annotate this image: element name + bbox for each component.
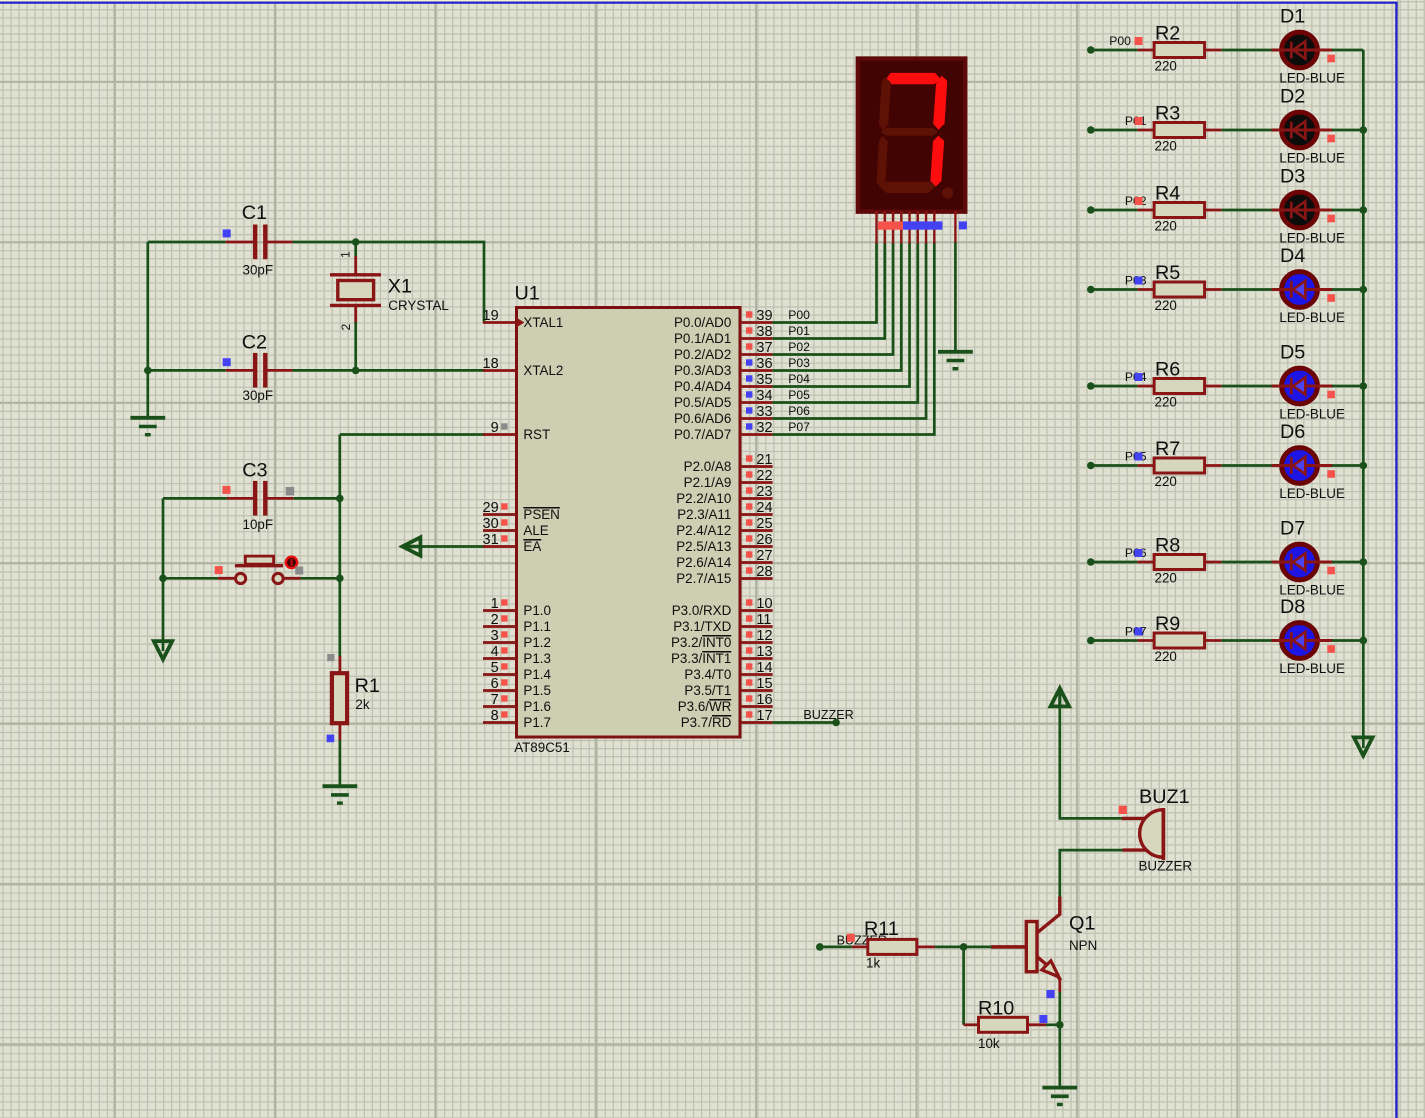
wire button right to RST vertical [301,577,340,580]
svg-text:P1.7: P1.7 [523,715,551,730]
7-segment display pins [877,211,956,244]
svg-text:P2.4/A12: P2.4/A12 [676,523,731,538]
wire R6 to D5 [1221,385,1272,388]
wire net P07 (LED row left) [1087,637,1138,645]
svg-text:23: 23 [756,484,772,500]
svg-text:LED-BLUE: LED-BLUE [1279,310,1345,325]
svg-text:P0.3/AD3: P0.3/AD3 [674,363,731,378]
value LED-BLUE (D2) [1279,151,1345,166]
transistor Q1 [991,897,1060,993]
svg-text:CRYSTAL: CRYSTAL [388,298,449,313]
pin 24 P2.3/A11 (U1 right) [677,500,772,522]
pin 29 PSEN (U1 left) [483,500,560,522]
resistor R7 [1138,458,1222,473]
label D8 [1280,596,1305,618]
svg-text:P3.6/WR: P3.6/WR [678,699,732,714]
wire D6 to bus [1332,464,1363,467]
pin 39 P0.0/AD0 (U1 right) [674,308,773,330]
label U1 [515,283,540,305]
svg-text:4: 4 [491,644,499,660]
svg-text:P3.4/T0: P3.4/T0 [684,667,731,682]
svg-text:24: 24 [756,500,772,516]
net label P00 (row) [1109,34,1131,48]
pin 30 ALE (U1 left) [483,516,549,538]
pin 34 P0.5/AD5 (U1 right) [674,388,773,410]
value CRYSTAL [388,298,449,313]
wire net P00 (LED row left) [1087,46,1138,54]
LED D2 [1272,112,1333,148]
svg-text:P1.4: P1.4 [523,667,551,682]
svg-text:ALE: ALE [523,523,548,538]
pin number 1 (X1) [339,251,353,258]
pin 31 EA (U1 left) [483,532,542,554]
marker square buzzer top (red) [1119,806,1127,814]
pin 18 XTAL2 (U1 left) [483,356,564,378]
svg-text:P2.6/A14: P2.6/A14 [676,555,732,570]
wire D3 to bus [1332,209,1363,212]
svg-text:14: 14 [756,660,772,676]
marker square P00 (red) [1135,37,1143,45]
label C3 [242,459,267,481]
svg-text:30pF: 30pF [243,388,274,403]
label D6 [1280,421,1305,443]
marker square P03 (blue) [1135,277,1143,285]
svg-text:P0.1/AD1: P0.1/AD1 [674,331,731,346]
pin 38 P0.1/AD1 (U1 right) [674,324,773,346]
pin 5 P1.4 (U1 left) [483,660,551,682]
net label P03 (row) [1125,273,1147,287]
net label P00 [788,308,810,322]
svg-text:30: 30 [483,516,499,532]
wire left vertical (C1/C2 left to ground) [146,242,149,418]
svg-text:P04: P04 [788,372,810,386]
value LED-BLUE (D7) [1279,583,1345,598]
svg-text:220: 220 [1155,219,1177,234]
net label P01 (row) [1125,114,1147,128]
svg-text:P1.1: P1.1 [523,619,551,634]
wire R9 to D8 [1221,639,1272,642]
wire button left down [162,578,165,651]
wire net P00 [773,243,877,323]
marker square D7 (red) [1327,567,1335,575]
label X1 [388,276,412,298]
svg-text:12: 12 [756,628,772,644]
svg-text:D2: D2 [1280,86,1305,108]
resistor R9 [1138,633,1222,648]
svg-text:P3.2/INT0: P3.2/INT0 [671,635,731,650]
svg-text:D6: D6 [1280,421,1305,443]
label R4 [1155,183,1180,205]
wire R4 to D3 [1221,209,1272,212]
svg-text:X1: X1 [388,276,412,298]
svg-text:220: 220 [1155,298,1177,313]
junction node (BUZZER stub end) [832,719,840,727]
svg-text:R4: R4 [1155,183,1180,205]
svg-text:P0.6/AD6: P0.6/AD6 [674,411,731,426]
junction node (bus row D6) [1360,462,1368,470]
pin 3 P1.2 (U1 left) [483,628,551,650]
svg-text:R3: R3 [1155,103,1180,125]
wire net P07 [773,243,935,435]
label C1 [242,202,267,224]
resistor R3 [1138,123,1222,138]
junction node (C2-X1 pin2) [352,367,360,375]
svg-text:LED-BLUE: LED-BLUE [1279,486,1345,501]
svg-text:D1: D1 [1280,6,1305,28]
pin 21 P2.0/A8 (U1 right) [684,452,773,474]
resistor R10 [964,1017,1046,1032]
terminal arrow (down, button branch) [154,641,172,659]
svg-text:30pF: 30pF [243,263,274,278]
svg-text:AT89C51: AT89C51 [514,740,570,755]
junction node (bus row D5) [1360,382,1368,390]
wire net P05 (LED row left) [1087,462,1138,470]
marker square D3 (red) [1327,215,1335,223]
marker square P04 (blue) [1135,373,1143,381]
wire net P03 [773,243,902,371]
svg-text:R7: R7 [1155,438,1180,460]
svg-text:BUZ1: BUZ1 [1139,786,1190,808]
pin 19 XTAL1 (U1 left) [483,308,564,330]
wire X1 pin1 [354,242,357,257]
svg-text:P3.0/RXD: P3.0/RXD [672,603,732,618]
pin 33 P0.6/AD6 (U1 right) [674,404,773,426]
svg-text:LED-BLUE: LED-BLUE [1279,231,1345,246]
marker square R11 left (red) [847,934,855,942]
svg-text:26: 26 [756,532,772,548]
svg-text:10: 10 [756,596,772,612]
wire C3 row [163,497,340,500]
value 30pF (C1) [243,263,274,278]
wire R2 to D1 [1221,49,1272,52]
crystal X1 [330,275,381,306]
wire net P06 (LED row left) [1087,558,1138,566]
net label BUZZER (R11) [837,934,887,948]
svg-text:D8: D8 [1280,596,1305,618]
capacitor C1 [226,225,293,260]
label R8 [1155,535,1180,557]
wire net BUZZER (pin17 stub) [773,721,837,724]
wire net P04 (LED row left) [1087,382,1138,390]
marker square C1 (blue) [223,229,231,237]
svg-text:220: 220 [1155,571,1177,586]
svg-text:5: 5 [491,660,499,676]
value 2k (R1) [355,697,369,712]
wire R5 to D4 [1221,288,1272,291]
pin 22 P2.1/A9 (U1 right) [684,468,773,490]
ground (Q1) [1042,1088,1077,1105]
LED D7 [1272,544,1333,580]
svg-text:BUZZER: BUZZER [1139,859,1193,874]
wire R3 to D2 [1221,129,1272,132]
wire R8 to D7 [1221,561,1272,564]
wire R7 to D6 [1221,464,1272,467]
LED D3 [1272,192,1333,228]
svg-text:P2.0/A8: P2.0/A8 [684,459,732,474]
svg-text:LED-BLUE: LED-BLUE [1279,407,1345,422]
junction node (bus row D8) [1360,637,1368,645]
svg-text:RST: RST [523,427,550,442]
svg-text:11: 11 [756,612,771,628]
svg-text:220: 220 [1155,474,1177,489]
label R1 [355,675,380,697]
junction node (left/C2) [144,367,152,375]
net label P07 [788,420,810,434]
power terminal arrow (up) [1051,688,1070,706]
pin 35 P0.4/AD4 (U1 right) [674,372,773,394]
svg-text:10pF: 10pF [243,517,274,532]
value 220 (R3) [1155,139,1177,154]
label D7 [1280,518,1305,540]
resistor R6 [1138,379,1222,394]
resistor R2 [1138,43,1222,58]
pin 12 P3.2/INT0 (U1 right) [671,628,773,650]
svg-text:LED-BLUE: LED-BLUE [1279,71,1345,86]
resistor R1 [332,656,347,741]
svg-text:7: 7 [491,692,499,708]
marker square P01 (red) [1135,117,1143,125]
svg-text:P1.0: P1.0 [523,603,551,618]
svg-text:P0.7/AD7: P0.7/AD7 [674,427,731,442]
svg-text:27: 27 [756,548,772,564]
junction node (button left) [159,575,167,583]
svg-text:P1.3: P1.3 [523,651,551,666]
wire emitter junction to ground [1058,1025,1061,1087]
marker square emitter (blue) [1046,990,1054,998]
svg-text:33: 33 [756,404,772,420]
terminal arrow (down, bus end) [1354,737,1373,755]
wire EA [421,545,485,548]
pin 13 P3.3/INT1 (U1 right) [671,644,773,666]
svg-text:3: 3 [491,628,499,644]
value LED-BLUE (D8) [1279,661,1345,676]
svg-text:R6: R6 [1155,359,1180,381]
svg-text:P06: P06 [788,404,810,418]
svg-text:P0.2/AD2: P0.2/AD2 [674,347,731,362]
label R6 [1155,359,1180,381]
svg-text:29: 29 [483,500,499,516]
marker square C3 right (grey) [286,487,295,496]
value 10k (R10) [978,1036,1000,1051]
svg-text:P2.1/A9: P2.1/A9 [684,475,732,490]
value LED-BLUE (D5) [1279,407,1345,422]
svg-text:D7: D7 [1280,518,1305,540]
svg-text:21: 21 [756,452,772,468]
resistor R4 [1138,203,1222,218]
svg-text:LED-BLUE: LED-BLUE [1279,661,1345,676]
capacitor C2 [226,353,293,388]
wire power to buzzer top [1060,704,1122,818]
svg-text:2k: 2k [355,697,369,712]
value 220 (R5) [1155,298,1177,313]
label R7 [1155,438,1180,460]
value 1k (R11) [866,956,880,971]
svg-text:XTAL2: XTAL2 [523,363,563,378]
resistor R5 [1138,282,1222,297]
marker square P05 (blue) [1135,453,1143,461]
svg-text:38: 38 [756,324,772,340]
marker square C3 left (red) [223,486,231,494]
wire R11 to Q1 base [935,946,992,949]
net label P07 (row) [1125,624,1147,638]
svg-text:1: 1 [491,596,499,612]
svg-text:P3.1/TXD: P3.1/TXD [673,619,731,634]
svg-text:16: 16 [756,692,772,708]
wire net BUZZER (R11 left) [816,943,852,951]
value 220 (R7) [1155,474,1177,489]
net label P04 [788,372,810,386]
wire net P05 [773,243,918,403]
svg-text:C3: C3 [242,459,267,481]
net label P04 (row) [1125,370,1147,384]
marker square P07 (blue) [1135,628,1143,636]
LED D1 [1272,32,1333,68]
svg-text:8: 8 [491,708,499,724]
svg-text:P03: P03 [788,356,810,370]
svg-text:P1.5: P1.5 [523,683,551,698]
wire buzzer bottom to Q1 collector [1060,850,1123,897]
wire net P06 [773,243,926,419]
marker square button left (red) [215,566,223,574]
pin 10 P3.0/RXD (U1 right) [672,596,773,618]
marker square R1 top (grey) [327,654,334,661]
label R5 [1155,262,1180,284]
wire base junction down to R10 [962,947,965,1025]
svg-text:P0.4/AD4: P0.4/AD4 [674,379,732,394]
svg-text:R5: R5 [1155,262,1180,284]
value 220 (R6) [1155,395,1177,410]
value 220 (R8) [1155,571,1177,586]
net label P05 (row) [1125,449,1147,463]
svg-text:37: 37 [756,340,772,356]
svg-text:P2.3/A11: P2.3/A11 [677,507,731,522]
marker square P06 (blue) [1135,549,1143,557]
ground (display) [938,352,973,369]
marker bar display pins (blue) [903,221,943,229]
svg-text:R9: R9 [1155,613,1180,635]
junction node (emitter-R10) [1056,1021,1064,1029]
marker bar display pins (red) [878,221,903,229]
svg-text:P0.0/AD0: P0.0/AD0 [674,315,731,330]
marker square D2 (red) [1327,135,1335,143]
value LED-BLUE (D3) [1279,231,1345,246]
wire net XTAL1 (left segment to C1) [148,241,226,244]
pin 9 RST (U1 left) [483,420,550,442]
pin 36 P0.3/AD3 (U1 right) [674,356,773,378]
buzzer BUZ1 [1122,809,1164,861]
svg-text:15: 15 [756,676,772,692]
wire D4 to bus [1332,288,1363,291]
LED D5 [1272,368,1333,404]
svg-text:220: 220 [1155,59,1177,74]
svg-text:17: 17 [756,708,772,724]
svg-text:Q1: Q1 [1069,913,1095,935]
value LED-BLUE (D1) [1279,71,1345,86]
marker square P02 (red) [1135,197,1143,205]
pin 2 P1.1 (U1 left) [483,612,551,634]
ground (oscillator) [130,418,165,435]
wire net P03 (LED row left) [1087,286,1138,294]
pin 15 P3.5/T1 (U1 right) [684,676,772,698]
pin 7 P1.6 (U1 left) [483,692,551,714]
marker square D8 (red) [1327,645,1335,653]
pin 4 P1.3 (U1 left) [483,644,551,666]
wire net P02 (LED row left) [1087,206,1138,214]
svg-text:39: 39 [756,308,772,324]
value LED-BLUE (D4) [1279,310,1345,325]
wire D1 to bus [1332,49,1363,52]
svg-text:P0.5/AD5: P0.5/AD5 [674,395,731,410]
pin number 2 (X1) [339,324,353,331]
value 220 (R4) [1155,219,1177,234]
svg-text:34: 34 [756,388,772,404]
wire net P02 [773,243,893,355]
LED D6 [1272,448,1333,484]
IC U1 AT89C51 body [517,308,741,738]
svg-text:P00: P00 [788,308,810,322]
value NPN (Q1) [1069,938,1097,953]
svg-text:EA: EA [523,539,541,554]
LED D4 [1272,272,1333,308]
wire Q1 emitter down [1058,992,1061,1025]
svg-text:1: 1 [339,251,353,258]
marker square D1 (red) [1327,55,1335,63]
label D3 [1280,166,1305,188]
svg-text:PSEN: PSEN [523,507,559,522]
LED D8 [1272,623,1333,659]
marker square display common (blue) [959,221,967,229]
wire net P01 [773,243,885,339]
marker square D4 (red) [1327,294,1335,302]
net label BUZZER (pin17) [803,708,853,722]
svg-text:P07: P07 [788,420,810,434]
svg-text:R1: R1 [355,675,380,697]
net label P06 [788,404,810,418]
label D4 [1280,245,1305,267]
svg-text:R11: R11 [864,918,899,940]
svg-text:P2.7/A15: P2.7/A15 [676,571,731,586]
label D1 [1280,6,1305,28]
pin lead X1 pin2 [354,305,357,323]
pin 37 P0.2/AD2 (U1 right) [674,340,773,362]
wire D8 to bus [1332,639,1363,642]
wire net XTAL1 (C1 right to U1 pin19) [292,242,484,323]
svg-text:P3.5/T1: P3.5/T1 [684,683,731,698]
marker square D6 (red) [1327,470,1335,478]
pin lead X1 pin1 [354,256,357,274]
wire net P01 (LED row left) [1087,126,1138,134]
svg-text:36: 36 [756,356,772,372]
svg-text:LED-BLUE: LED-BLUE [1279,151,1345,166]
pin 26 P2.5/A13 (U1 right) [676,532,772,554]
svg-text:P01: P01 [788,324,810,338]
junction node (button-RST) [336,575,344,583]
value 30pF (C2) [243,388,274,403]
svg-text:U1: U1 [515,283,540,305]
junction node (C1-X1 pin1) [352,238,360,246]
pin 17 P3.7/RD (U1 right) [681,708,773,730]
wire X1 pin2 to C2 net [354,322,357,370]
svg-text:XTAL1: XTAL1 [523,315,563,330]
wire R10 to emitter junction [1046,1023,1060,1026]
svg-text:35: 35 [756,372,772,388]
capacitor C3 [227,481,293,516]
wire display common to ground [954,243,957,352]
junction node (bus row D4) [1360,286,1368,294]
svg-text:13: 13 [756,644,772,660]
svg-text:10k: 10k [978,1036,1000,1051]
marker square R10 right (blue) [1039,1015,1047,1023]
